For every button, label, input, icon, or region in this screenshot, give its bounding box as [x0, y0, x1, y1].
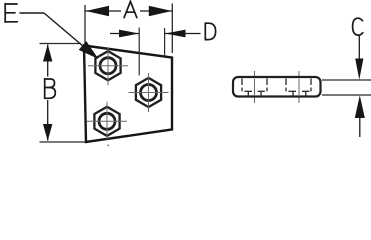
centerline inner segment group 1 [254, 79, 256, 95]
hidden line drill sides group 2 [293, 91, 306, 96]
dimension C arrow down [355, 59, 363, 80]
dimension B arrow up [43, 44, 52, 61]
dimension B extension line bottom [40, 141, 86, 143]
centerline crosshair hole 2 (top-right) [129, 73, 169, 112]
hidden line counterbore right side group 2 [310, 79, 312, 92]
dimension C tail [359, 118, 361, 137]
dimension A extension line right [171, 4, 173, 54]
side view bar [233, 77, 321, 97]
dimension C extension line bottom [322, 94, 371, 96]
dimension A arrow right [149, 6, 172, 17]
hex nut 2 (top-right hole) [136, 78, 161, 107]
dimension A extension line left [84, 5, 86, 45]
hidden line counterbore left side group 2 [285, 79, 287, 92]
dimension A line left segment [85, 10, 121, 12]
hidden line drill sides group 1 [248, 91, 261, 96]
dimension D extension line right [164, 28, 166, 56]
dimension D extension line left [138, 28, 140, 76]
label B [45, 79, 56, 99]
leader E diagonal [44, 13, 90, 52]
dimension C arrow up [355, 95, 365, 118]
centerline hole group 1 (side view) [254, 71, 256, 103]
centerline inner segment group 2 [298, 79, 300, 95]
label A [124, 1, 137, 17]
label D [205, 23, 215, 39]
dimension D arrow left (points right) [119, 30, 139, 38]
dimension D line right [165, 33, 201, 35]
dimension B line upper [47, 45, 49, 77]
dimension D line left [110, 33, 139, 35]
centerline crosshair hole 1 (top-left) [88, 48, 128, 85]
leader E arrowhead [79, 41, 99, 59]
hidden line counterbore left side group 1 [241, 79, 243, 92]
stray dot [107, 144, 109, 146]
centerline hole group 2 (side view) [298, 71, 300, 103]
hidden line counterbore floor group 2 [289, 90, 310, 92]
hex nut 3 (bottom-left hole) [94, 107, 119, 136]
label C [353, 18, 363, 35]
hidden line counterbore right side group 1 [266, 79, 268, 92]
dimension B arrow down [43, 124, 52, 141]
dimension C stem [358, 36, 360, 60]
dimension A arrow left [86, 6, 109, 17]
dimension B line lower [47, 100, 49, 141]
centerline crosshair hole 3 (bottom-left) [87, 102, 127, 139]
plate outline (front view) [84, 46, 172, 143]
dimension A line right segment [140, 10, 172, 12]
label E [5, 4, 17, 23]
dimension C extension line top [322, 79, 371, 81]
hex nut 1 (top-left hole) [95, 51, 120, 80]
dimension D arrow right (points left) [165, 30, 185, 38]
leader E horizontal stub [20, 12, 45, 14]
dimension B extension line top [40, 43, 82, 45]
hidden line counterbore floor group 1 [245, 90, 265, 92]
